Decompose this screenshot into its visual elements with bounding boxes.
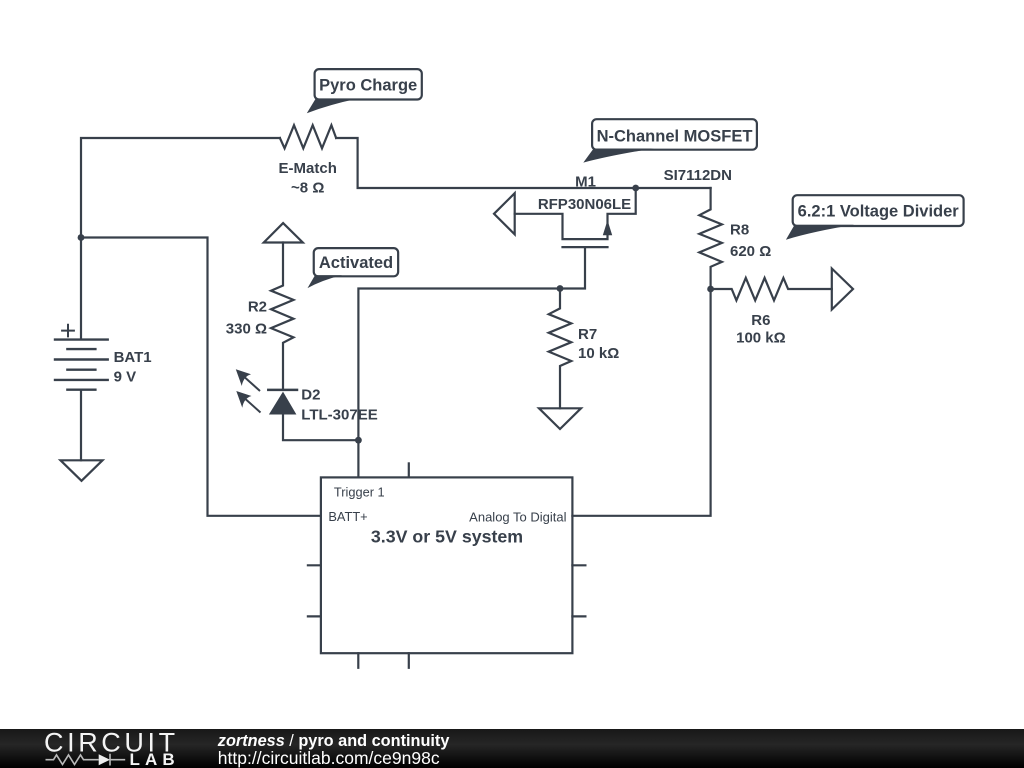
resistor R6 bbox=[711, 278, 832, 301]
svg-text:M1: M1 bbox=[575, 174, 596, 191]
junction gate-R7 node bbox=[557, 285, 564, 292]
ground battery bbox=[61, 460, 103, 481]
battery plus sign bbox=[62, 325, 74, 337]
svg-text:D2: D2 bbox=[301, 387, 320, 404]
callout Activated bbox=[308, 248, 399, 288]
resistor R2 bbox=[271, 243, 294, 390]
svg-text:http://circuitlab.com/ce9n98c: http://circuitlab.com/ce9n98c bbox=[218, 748, 440, 768]
svg-text:100 kΩ: 100 kΩ bbox=[736, 330, 786, 347]
LED arrow 2 head bbox=[236, 391, 251, 408]
transistor M1 body bbox=[515, 188, 636, 239]
svg-text:LAB: LAB bbox=[130, 750, 180, 768]
box pin top bbox=[408, 463, 410, 477]
LED arrow 1 head bbox=[236, 369, 251, 386]
svg-text:9 V: 9 V bbox=[114, 369, 137, 386]
svg-text:BAT1: BAT1 bbox=[114, 349, 152, 366]
svg-text:~8 Ω: ~8 Ω bbox=[291, 179, 324, 196]
svg-text:10 kΩ: 10 kΩ bbox=[578, 345, 619, 362]
box pins bottom bbox=[358, 653, 409, 668]
junction R8-R6 node bbox=[707, 286, 714, 293]
svg-text:RFP30N06LE: RFP30N06LE bbox=[538, 196, 631, 213]
svg-text:N-Channel MOSFET: N-Channel MOSFET bbox=[597, 128, 753, 146]
box pins left bbox=[308, 565, 321, 616]
diode D2 triangle bbox=[269, 392, 297, 415]
footer bar bbox=[0, 729, 1024, 768]
transistor M1 arrow bbox=[603, 220, 612, 235]
junction trigger node bbox=[355, 437, 362, 444]
box pins right bbox=[572, 565, 585, 616]
callout 6.2:1 Voltage Divider bbox=[786, 195, 964, 240]
wire E-Match to drain rail bbox=[336, 138, 710, 188]
box 3.3V or 5V system bbox=[321, 477, 573, 653]
svg-text:BATT+: BATT+ bbox=[328, 509, 367, 524]
svg-text:R2: R2 bbox=[248, 299, 267, 316]
svg-text:E-Match: E-Match bbox=[279, 160, 337, 177]
callout N-Channel MOSFET bbox=[583, 119, 757, 162]
svg-text:3.3V or 5V system: 3.3V or 5V system bbox=[371, 527, 523, 547]
svg-text:6.2:1 Voltage Divider: 6.2:1 Voltage Divider bbox=[798, 203, 960, 221]
svg-text:SI7112DN: SI7112DN bbox=[664, 167, 732, 184]
junction drain node bbox=[632, 185, 639, 192]
node output port triangle bbox=[832, 269, 853, 310]
LED arrow 1 line bbox=[241, 374, 260, 391]
wire battery- down bbox=[80, 390, 82, 461]
svg-text:620 Ω: 620 Ω bbox=[730, 243, 771, 260]
svg-text:R8: R8 bbox=[730, 221, 749, 238]
logo diode triangle bbox=[99, 754, 110, 765]
junction battery node bbox=[78, 234, 85, 241]
wire battery+ up to top rail bbox=[81, 138, 280, 339]
resistor R7 bbox=[549, 289, 572, 409]
callout Pyro Charge bbox=[307, 69, 422, 113]
svg-text:R7: R7 bbox=[578, 326, 597, 343]
resistor E-Match zigzag bbox=[280, 125, 336, 148]
node source port triangle bbox=[494, 193, 515, 234]
wire D2 to trigger node bbox=[283, 415, 358, 441]
LED arrow 2 line bbox=[242, 396, 261, 413]
diode D2 cathode bar bbox=[268, 389, 297, 392]
svg-text:Trigger 1: Trigger 1 bbox=[334, 484, 385, 499]
svg-text:LTL-307EE: LTL-307EE bbox=[301, 407, 377, 424]
battery BAT1 plates bbox=[55, 340, 108, 390]
node flag up triangle above R2 bbox=[264, 223, 303, 242]
ground R7 bbox=[539, 408, 581, 429]
transistor M1 gate bbox=[358, 247, 607, 477]
svg-text:Analog To Digital: Analog To Digital bbox=[469, 510, 566, 525]
wire battery node to box BATT+ pin bbox=[81, 238, 321, 516]
resistor R8 bbox=[699, 188, 722, 289]
wire R6 node down to box ADC pin bbox=[572, 289, 710, 516]
svg-text:R6: R6 bbox=[751, 312, 770, 329]
svg-text:Activated: Activated bbox=[319, 254, 393, 272]
svg-text:330 Ω: 330 Ω bbox=[226, 321, 267, 338]
logo resistor-diode symbol bbox=[46, 754, 126, 766]
svg-text:Pyro Charge: Pyro Charge bbox=[319, 76, 417, 94]
